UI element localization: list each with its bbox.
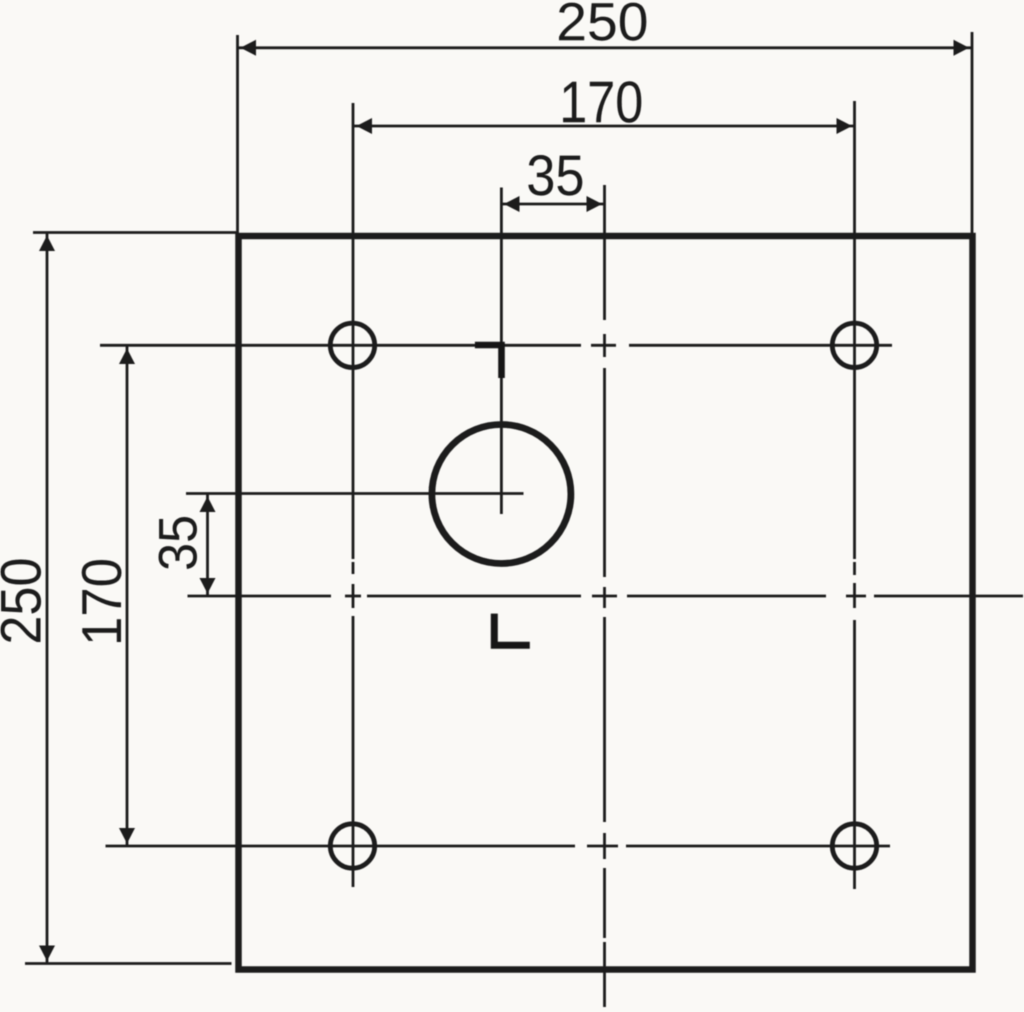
arrow 35 top left [504, 196, 520, 212]
dimension line 170 left [126, 346, 129, 846]
arrow 250 top right [954, 40, 970, 56]
hole column line right [853, 101, 856, 889]
arrow 250 left down [39, 946, 55, 962]
arrow 35 top right [587, 196, 603, 212]
port letter L rotated 180 at top row [475, 342, 505, 378]
hole row line top [100, 344, 892, 347]
dimension line 35 left [206, 494, 209, 596]
center circle (port bore) [432, 425, 571, 564]
label 35 left (rotated) [159, 517, 198, 569]
label 250 left (rotated) [1, 560, 42, 643]
hole bottom-left [330, 824, 374, 868]
arrow 170 left up [119, 349, 135, 365]
arrow 35 left up [200, 497, 216, 513]
extension line left top (for 250 vertical) [33, 231, 238, 234]
extension line top-left corner [236, 35, 239, 233]
dimension line 250 left [46, 233, 49, 964]
arrow 170 top left [357, 118, 373, 134]
dimension line 170 top [354, 125, 855, 128]
label 250 top [559, 3, 646, 41]
label 170 top [563, 81, 641, 123]
hole row line bottom [106, 845, 891, 848]
arrow 170 top right [837, 118, 853, 134]
port letter L below circle [491, 614, 530, 649]
centerline vertical (plate axis) [603, 185, 606, 1007]
label 35 top [528, 155, 582, 196]
hole column line left [352, 103, 355, 887]
circle axis vertical [500, 188, 503, 515]
arrow 170 left down [119, 828, 135, 844]
plate outline [239, 236, 973, 970]
dimension line 35 top [502, 203, 605, 206]
arrow 35 left down [200, 578, 216, 594]
arrow 250 left up [39, 236, 55, 252]
hole top-left [330, 323, 374, 367]
extension line top-right corner [971, 32, 974, 233]
dimension line 250 top [238, 46, 972, 49]
centerline horizontal (plate axis) [188, 595, 1024, 598]
hole bottom-right [832, 824, 876, 868]
circle axis horizontal [186, 492, 524, 495]
arrow 250 top left [241, 40, 257, 56]
label 170 left (rotated) [82, 560, 122, 642]
hole top-right [832, 323, 876, 367]
extension line left bottom (for 250 vertical) [25, 962, 232, 965]
